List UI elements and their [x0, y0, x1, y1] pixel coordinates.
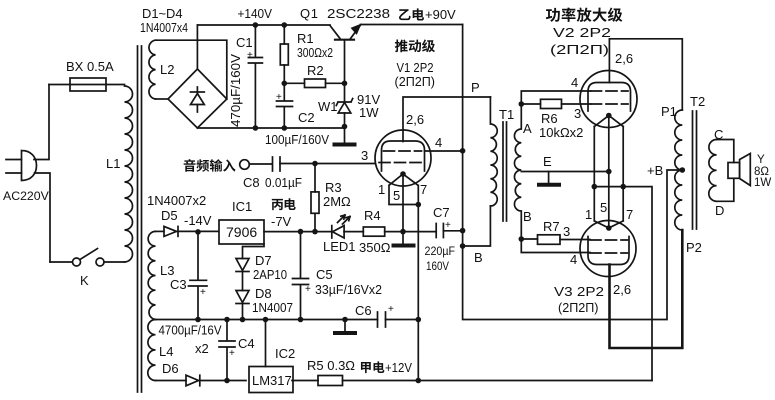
- V2 anode: [588, 83, 631, 112]
- +140V rail: [197, 24, 330, 26]
- capacitor C8: [249, 157, 280, 171]
- svg-text:R3: R3: [325, 180, 342, 195]
- V2 screen grid dashes: [591, 90, 629, 92]
- T2 secondary winding: [709, 140, 717, 202]
- svg-text:1W: 1W: [754, 177, 771, 189]
- V1 filament pin1 route: [389, 185, 418, 204]
- svg-text:470µF/160V: 470µF/160V: [229, 53, 243, 127]
- svg-text:350Ω: 350Ω: [359, 240, 391, 255]
- svg-text:+140V: +140V: [238, 6, 273, 21]
- svg-text:(2П2П): (2П2П): [550, 42, 609, 57]
- node A riser to V2 pin4: [521, 91, 590, 104]
- svg-text:2,6: 2,6: [613, 282, 631, 297]
- secondary winding L4: [148, 320, 156, 381]
- capacitor C4: [219, 320, 235, 381]
- wire 7906 output: [264, 231, 332, 233]
- svg-text:(2П2П): (2П2П): [395, 74, 436, 89]
- svg-text:P1: P1: [661, 104, 677, 119]
- svg-text:2AP10: 2AP10: [253, 267, 287, 282]
- svg-text:C8: C8: [243, 175, 260, 190]
- svg-text:C7: C7: [433, 205, 450, 220]
- speaker Y: [728, 154, 750, 186]
- IC2 LM317 box: [249, 367, 293, 393]
- diode D6: [186, 375, 246, 386]
- svg-text:C: C: [714, 127, 723, 142]
- T1 secondary winding: [514, 104, 521, 239]
- svg-text:-14V: -14V: [184, 213, 212, 228]
- label 丙电: [272, 198, 296, 210]
- bridge rectifier D1-D4: [168, 69, 227, 128]
- ground bar below W1: [335, 127, 355, 145]
- svg-text:Y: Y: [757, 154, 765, 166]
- svg-text:3: 3: [563, 224, 570, 239]
- svg-text:1: 1: [585, 207, 592, 222]
- T1 primary winding: [490, 97, 497, 206]
- svg-text:D5: D5: [161, 208, 178, 223]
- rail -140 bottom: [197, 127, 344, 129]
- primary winding L1: [125, 86, 133, 262]
- svg-text:0.01µF: 0.01µF: [265, 175, 302, 190]
- V3 anode: [588, 237, 629, 265]
- V1 pin5 line: [402, 174, 404, 232]
- T2 primary P2 winding: [675, 170, 683, 230]
- wire L2 top to bridge right: [156, 40, 227, 99]
- wire D7 to D8: [242, 272, 244, 291]
- filament supply crossbar: [594, 186, 623, 188]
- resistor R3: [311, 164, 319, 232]
- svg-text:Q1: Q1: [300, 6, 318, 21]
- svg-text:C6: C6: [355, 303, 372, 318]
- svg-text:1W: 1W: [359, 105, 379, 120]
- svg-text:LED1: LED1: [323, 239, 356, 254]
- V3 pin4 wire: [521, 239, 590, 253]
- svg-text:R1: R1: [297, 31, 314, 46]
- resistor R6: [521, 99, 590, 108]
- svg-text:L4: L4: [159, 344, 173, 359]
- svg-text:x2: x2: [195, 341, 209, 356]
- svg-text:L3: L3: [160, 263, 174, 278]
- svg-text:3: 3: [574, 106, 581, 121]
- svg-text:D7: D7: [255, 253, 272, 268]
- label 音频输入: [184, 159, 236, 172]
- LED1: [332, 215, 364, 238]
- svg-text:160V: 160V: [426, 259, 450, 273]
- V2 control grid dashes: [591, 103, 629, 105]
- resistor R1: [280, 25, 288, 83]
- T1 core: [503, 122, 507, 221]
- wire C8 to V1 grid: [280, 163, 375, 165]
- node B wire to R7: [521, 238, 537, 240]
- svg-text:+: +: [229, 348, 235, 359]
- tube V1 envelope: [375, 130, 431, 186]
- V1 anode: [382, 141, 425, 171]
- E tap wire: [521, 171, 609, 173]
- svg-text:LM317: LM317: [252, 373, 292, 388]
- label 功率放大级: [546, 7, 623, 21]
- svg-text:T1: T1: [499, 107, 514, 122]
- label 乙电+90V: [399, 8, 424, 20]
- wire L3 to D5: [156, 230, 165, 232]
- svg-text:V1 2P2: V1 2P2: [397, 60, 434, 75]
- IC1 7906 box: [219, 220, 264, 244]
- svg-text:D1~D4: D1~D4: [142, 6, 183, 21]
- V1 filament: [389, 174, 418, 185]
- label 推动级: [395, 39, 435, 52]
- transistor Q1: [330, 25, 361, 83]
- svg-text:D8: D8: [255, 286, 272, 301]
- tube V2 envelope: [580, 71, 637, 128]
- resistor R7: [538, 235, 591, 245]
- negative rail 4700uF row: [156, 319, 419, 321]
- capacitor C5: [293, 232, 309, 320]
- svg-text:C5: C5: [316, 267, 333, 282]
- wire rail to IC2 top: [265, 320, 267, 367]
- V2 filament: [594, 116, 623, 127]
- B wire to T1 primary bottom: [463, 206, 491, 246]
- resistor R5: [292, 376, 652, 386]
- 90V rail from Q1 emitter: [361, 24, 463, 26]
- svg-text:+: +: [305, 284, 311, 295]
- V2 filament legs down: [594, 127, 623, 187]
- transformer core: [138, 46, 142, 392]
- svg-text:V2 2P2: V2 2P2: [553, 25, 611, 40]
- capacitor C6: [378, 312, 386, 327]
- svg-text:IC1: IC1: [232, 199, 252, 214]
- svg-text:W1: W1: [318, 99, 338, 114]
- svg-text:5: 5: [393, 188, 400, 203]
- svg-text:1N4007x4: 1N4007x4: [140, 20, 188, 35]
- capacitor C2: [277, 83, 293, 128]
- svg-text:4: 4: [571, 75, 578, 90]
- wire 7906 ground pin: [243, 244, 265, 259]
- svg-text:+: +: [388, 304, 394, 315]
- resistor R2: [284, 79, 344, 88]
- svg-text:3: 3: [361, 148, 368, 163]
- svg-text:2,6: 2,6: [615, 51, 633, 66]
- svg-text:R6: R6: [541, 111, 558, 126]
- wire L4 to D6: [156, 380, 187, 382]
- svg-text:4700µF/16V: 4700µF/16V: [159, 323, 222, 338]
- svg-text:2MΩ: 2MΩ: [323, 194, 351, 209]
- svg-text:A: A: [523, 121, 532, 136]
- label 甲电+12V: [361, 361, 384, 373]
- 90V riser down right side: [463, 25, 683, 320]
- E chassis ground: [539, 172, 559, 185]
- svg-text:2,6: 2,6: [406, 112, 424, 127]
- svg-text:V3 2P2: V3 2P2: [554, 284, 604, 299]
- svg-text:K: K: [80, 273, 89, 288]
- V3 anode thick lead to T2 P2: [610, 230, 683, 348]
- secondary winding L3: [148, 231, 155, 319]
- svg-text:220µF: 220µF: [425, 244, 456, 258]
- svg-text:B: B: [474, 250, 483, 265]
- svg-text:1: 1: [378, 182, 385, 197]
- tube V3 envelope: [580, 221, 636, 277]
- svg-text:+: +: [445, 220, 451, 231]
- svg-text:300Ωx2: 300Ωx2: [297, 45, 333, 60]
- svg-text:C3: C3: [170, 277, 187, 292]
- wire plug to fuse: [34, 85, 49, 160]
- svg-text:100µF/160V: 100µF/160V: [265, 132, 329, 147]
- diode D5: [164, 226, 219, 236]
- AC plug: [6, 151, 37, 181]
- wire P to T1 primary top: [463, 96, 491, 98]
- svg-text:+12V: +12V: [385, 360, 412, 375]
- svg-text:10kΩx2: 10kΩx2: [539, 125, 583, 140]
- V1 screen grid dashes: [384, 150, 422, 152]
- V3 filament legs up: [594, 187, 623, 221]
- svg-text:2SC2238: 2SC2238: [327, 6, 390, 21]
- svg-text:7: 7: [420, 182, 427, 197]
- svg-text:7906: 7906: [226, 224, 257, 240]
- T2 core: [693, 111, 697, 229]
- capacitor C1: [248, 25, 262, 128]
- svg-text:+: +: [200, 287, 206, 298]
- V1 control grid dashes: [379, 162, 423, 164]
- svg-text:R5 0.3Ω: R5 0.3Ω: [307, 358, 355, 373]
- wire secondary top to speaker: [717, 140, 734, 163]
- svg-text:+B: +B: [647, 163, 663, 178]
- svg-text:1N4007x2: 1N4007x2: [147, 193, 206, 208]
- svg-text:1N4007: 1N4007: [252, 300, 293, 315]
- V3 filament: [594, 221, 623, 228]
- svg-text:-7V: -7V: [271, 214, 292, 229]
- V1 cathode ground: [394, 232, 414, 246]
- switch K: [50, 249, 125, 267]
- svg-text:+: +: [276, 92, 282, 103]
- wire L2 bottom to bridge left: [156, 98, 169, 100]
- V3 control grid dashes: [590, 239, 628, 241]
- capacitor C3: [189, 232, 208, 320]
- svg-text:+: +: [247, 50, 253, 61]
- svg-text:T2: T2: [690, 94, 705, 109]
- svg-text:BX 0.5A: BX 0.5A: [66, 59, 114, 74]
- V1 anode lead to P: [403, 97, 463, 142]
- V1 filament pin7 line down: [417, 185, 419, 380]
- svg-text:L2: L2: [160, 62, 174, 77]
- svg-text:D6: D6: [162, 361, 179, 376]
- chassis ground stub on rail: [335, 320, 355, 334]
- zener W1: [336, 83, 352, 126]
- wire bridge top to +140V rail: [196, 25, 198, 69]
- svg-text:+90V: +90V: [425, 7, 456, 22]
- svg-text:C1: C1: [236, 35, 253, 50]
- V2 anode lead to T2 P1: [609, 39, 682, 110]
- V3 screen grid dashes: [590, 252, 628, 254]
- svg-text:33µF/16Vx2: 33µF/16Vx2: [315, 282, 382, 297]
- diode D8: [236, 291, 249, 320]
- svg-text:E: E: [543, 154, 552, 169]
- secondary winding L2: [149, 40, 156, 99]
- svg-text:5: 5: [600, 200, 607, 215]
- svg-text:D: D: [715, 203, 724, 218]
- svg-text:P2: P2: [686, 240, 702, 255]
- wire fuse row: [49, 84, 125, 86]
- input terminal: [240, 160, 250, 170]
- svg-text:R4: R4: [364, 208, 381, 223]
- V2 pin5 line down to V3: [608, 116, 610, 229]
- svg-text:(2П2П): (2П2П): [558, 300, 599, 315]
- capacitor C7: [436, 224, 462, 238]
- V1 pin4 wire: [425, 150, 463, 152]
- fuse BX: [70, 78, 106, 91]
- T2 primary P1 winding: [675, 110, 683, 170]
- filament riser from +12V rail: [623, 187, 652, 381]
- svg-text:L1: L1: [106, 156, 120, 171]
- diode D7: [236, 259, 249, 272]
- svg-text:B: B: [523, 209, 532, 224]
- wire plug to switch: [35, 173, 51, 262]
- svg-text:C4: C4: [238, 336, 255, 351]
- wire secondary bottom to speaker: [717, 178, 734, 201]
- svg-text:C2: C2: [298, 110, 315, 125]
- svg-text:P: P: [471, 80, 480, 95]
- svg-text:R7: R7: [543, 219, 560, 234]
- svg-text:7: 7: [626, 207, 633, 222]
- svg-text:R2: R2: [307, 63, 324, 78]
- svg-text:4: 4: [570, 252, 577, 267]
- svg-text:IC2: IC2: [275, 346, 295, 361]
- svg-text:AC220V: AC220V: [3, 189, 50, 203]
- resistor R4: [363, 227, 436, 236]
- svg-text:4: 4: [435, 135, 442, 150]
